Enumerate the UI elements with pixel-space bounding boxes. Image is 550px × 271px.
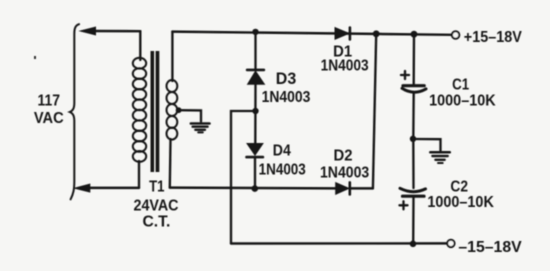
node D2 return [373,30,380,37]
wire D4 bottom [254,157,256,189]
wire D2 to return [350,187,373,189]
svg-text:+15–18V: +15–18V [464,29,522,46]
node C1 branch [411,31,418,38]
wire C1 top [413,34,416,84]
svg-text:1N4003: 1N4003 [321,58,369,75]
svg-text:D4: D4 [273,143,291,160]
svg-text:VAC: VAC [34,110,64,127]
svg-text:C.T.: C.T. [143,214,171,231]
speck [34,56,36,59]
transformer core [151,51,155,172]
node center tap [176,107,182,113]
terminal negative [447,240,454,247]
diode D4 [247,144,263,158]
node top D3 branch [252,29,258,35]
wire secondary top [171,32,173,81]
wire C2 bottom [412,196,415,243]
svg-text:–15–18V: –15–18V [458,239,522,256]
svg-text:117: 117 [38,92,61,109]
wire top rail [172,32,452,35]
ground center tap [191,124,210,133]
node D3 D4 mid [252,108,258,114]
diode D3 [247,70,264,84]
diode D1 [335,28,350,40]
wire primary top [139,31,141,60]
node D4 bottom [252,185,259,192]
wire secondary bottom [169,139,172,188]
diode D2 [336,182,350,194]
node C2 bottom [410,241,417,248]
svg-text:1N4003: 1N4003 [320,165,369,182]
plus C1 [401,71,409,79]
terminal positive [452,31,459,38]
wire C2 top [412,139,415,188]
plus C2 [400,201,408,209]
capacitor C2 [400,188,426,196]
svg-text:D2: D2 [334,148,353,165]
wire bottom rail [231,242,447,245]
capacitor C1 [402,86,426,93]
wire secondary bottom rail [170,186,336,189]
wire D2 return vertical [373,34,376,189]
svg-text:T1: T1 [149,179,164,196]
node ground mid [410,136,416,142]
wire center tap [179,110,201,121]
ground mid [430,152,450,163]
svg-text:C1: C1 [452,76,469,93]
svg-text:24VAC: 24VAC [134,198,179,215]
wire mid node to negative rail [231,111,256,244]
svg-text:1N4003: 1N4003 [259,162,306,179]
transformer T1 secondary coil [167,80,178,140]
svg-text:D3: D3 [276,70,296,88]
wire D3 branch upper [254,32,256,69]
wire primary bottom [138,161,140,188]
arrow bottom [74,184,89,192]
arrow top [80,27,95,35]
transformer T1 primary coil [133,58,146,162]
wire to ground mid [413,139,441,151]
wire D3-D4 [254,84,257,143]
wire bottom arrow line [88,187,139,189]
wire C1 bottom [412,94,415,139]
wire top arrow line [92,30,140,33]
svg-text:1N4003: 1N4003 [262,89,311,106]
svg-text:1000–10K: 1000–10K [429,92,496,109]
svg-text:1000–10K: 1000–10K [427,194,494,211]
brace 117 VAC [70,24,79,199]
svg-text:C2: C2 [450,179,468,196]
